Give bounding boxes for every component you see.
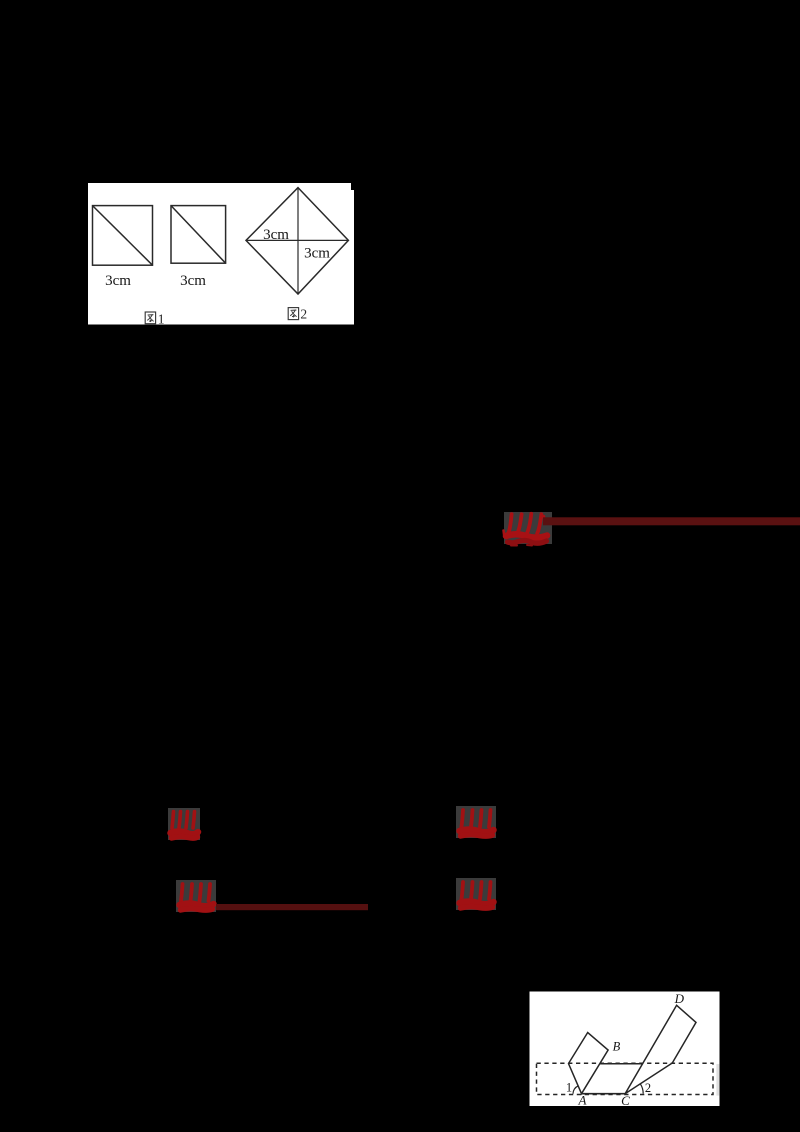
- quadrilateral AB (small tilted): [569, 1033, 609, 1094]
- red mark 1 grey patch: [504, 512, 552, 544]
- figure panel 1 white background: [88, 183, 354, 325]
- svg-text:3cm: 3cm: [304, 246, 330, 262]
- red mark 1 strokes: [504, 514, 548, 546]
- svg-text:A: A: [578, 1093, 587, 1108]
- square 2 diagonal: [171, 206, 226, 264]
- red mark 3 strokes: [460, 810, 494, 836]
- parallelogram base A C: [582, 1093, 626, 1095]
- svg-text:C: C: [621, 1093, 630, 1108]
- caption 图1: [145, 312, 155, 324]
- red mark 4 grey patch (lower-left): [176, 880, 216, 912]
- svg-text:2: 2: [645, 1081, 651, 1095]
- angle 1 arc at A: [573, 1086, 578, 1094]
- red mark 3 grey patch (upper-right): [456, 806, 496, 838]
- square 2: [171, 206, 226, 264]
- svg-text:B: B: [613, 1040, 621, 1054]
- red line 2: [216, 904, 368, 910]
- red mark 5 grey patch (lower-right): [456, 878, 496, 910]
- dashed rectangle band: [537, 1063, 714, 1094]
- svg-text:D: D: [674, 991, 685, 1006]
- red mark 4 strokes: [180, 884, 214, 910]
- svg-text:3cm: 3cm: [263, 227, 289, 243]
- svg-text:3cm: 3cm: [105, 273, 131, 289]
- svg-text:3cm: 3cm: [180, 273, 206, 289]
- grey scan artifact bar at box2 right edge: [716, 1064, 719, 1096]
- red mark 2 strokes: [171, 812, 199, 839]
- square 1: [93, 206, 153, 266]
- caption 图2: [288, 308, 298, 320]
- red line 1: [543, 517, 800, 525]
- angle 2 arc at C: [640, 1084, 643, 1094]
- diamond horizontal diagonal: [246, 239, 348, 241]
- square 1 diagonal: [93, 206, 153, 266]
- figure panel 2 white background: [530, 992, 720, 1107]
- svg-text:2: 2: [300, 306, 307, 321]
- svg-text:1: 1: [566, 1081, 572, 1095]
- diamond vertical diagonal: [297, 188, 299, 294]
- svg-text:1: 1: [158, 312, 165, 327]
- parallelogram top segment: [600, 1063, 643, 1065]
- quadrilateral CD (large tilted): [625, 1005, 696, 1093]
- figure 2 diamond: [246, 188, 348, 294]
- red mark 5 strokes: [460, 882, 494, 908]
- red mark 2 grey patch (upper-left): [168, 808, 200, 840]
